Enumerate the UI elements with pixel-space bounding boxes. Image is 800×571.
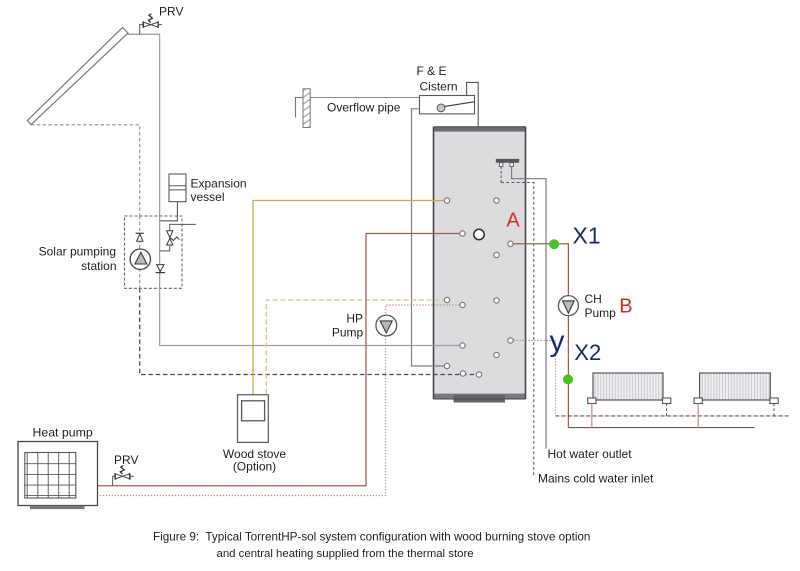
svg-text:Hot water outlet: Hot water outlet [548,447,633,461]
svg-text:Heat pump: Heat pump [33,426,93,440]
svg-text:vessel: vessel [191,190,225,204]
svg-text:Pump: Pump [585,306,617,320]
svg-text:HP: HP [346,311,363,325]
svg-text:Cistern: Cistern [419,80,457,94]
svg-text:PRV: PRV [159,4,183,18]
svg-text:F & E: F & E [416,64,446,78]
svg-text:(Option): (Option) [233,459,276,473]
svg-text:A: A [506,210,520,232]
svg-text:y: y [550,325,565,358]
svg-text:station: station [81,259,116,273]
svg-text:Expansion: Expansion [191,176,247,190]
svg-text:and central heating supplied f: and central heating supplied from the th… [217,548,474,560]
svg-text:Figure 9: Typical TorrentHP-s: Figure 9: Typical TorrentHP-sol system c… [153,530,590,543]
svg-text:Mains cold water inlet: Mains cold water inlet [538,472,654,486]
svg-text:Pump: Pump [332,325,364,339]
svg-text:X2: X2 [574,340,601,365]
svg-text:PRV: PRV [114,453,138,467]
svg-text:Solar pumping: Solar pumping [39,245,116,259]
svg-text:CH: CH [585,292,602,306]
svg-text:Overflow pipe: Overflow pipe [327,101,401,115]
svg-text:B: B [619,296,632,318]
svg-text:X1: X1 [573,222,601,248]
